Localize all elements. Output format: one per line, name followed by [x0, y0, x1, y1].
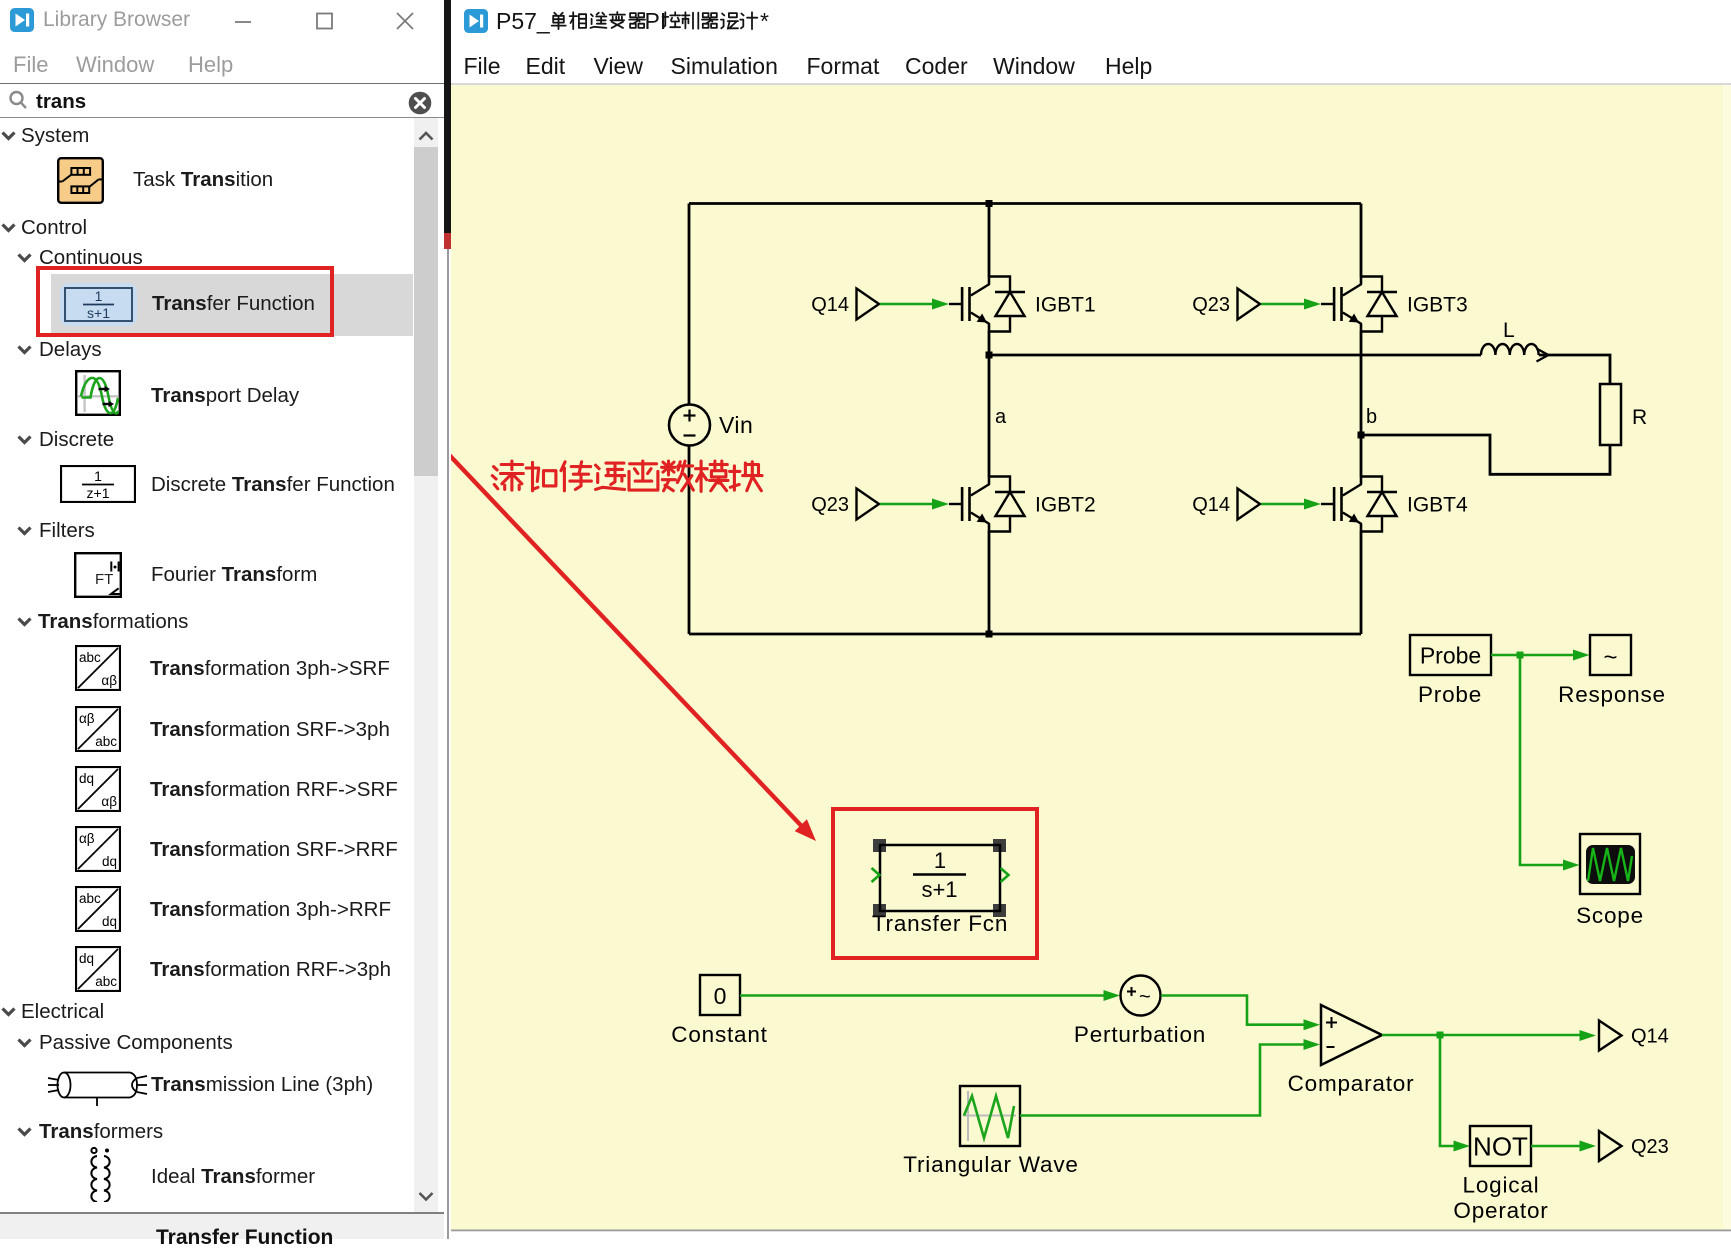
wire IGBT3 collector to top bus [1360, 204, 1363, 278]
wire Perturbation to Comparator plus input [1161, 996, 1304, 1025]
svg-text:IGBT3: IGBT3 [1407, 294, 1468, 317]
red annotation text 添加传递函数模块 [492, 461, 762, 491]
antiparallel diode of IGBT1 [989, 277, 1025, 332]
svg-text:Vin: Vin [719, 412, 753, 438]
wire IGBT1 collector to top bus [988, 204, 991, 278]
NOT logical operator [1470, 1126, 1531, 1166]
selection handles of Transfer Fcn [873, 839, 1006, 917]
wire left leg upper (Vin to top bus) [688, 204, 691, 405]
comparator [1321, 1005, 1382, 1065]
wire junction to Scope [1520, 655, 1563, 865]
inductor L [1481, 344, 1539, 355]
wire IGBT1 emitter to IGBT2 collector (node a leg) [988, 331, 991, 477]
svg-text:Transfer Fcn: Transfer Fcn [872, 911, 1008, 936]
svg-text:Probe: Probe [1420, 643, 1481, 669]
red annotation arrow [341, 341, 816, 841]
wire gate signal IGBT1 [880, 299, 949, 310]
transistor IGBT2 [949, 477, 990, 532]
gate port Q14 of IGBT1 [811, 289, 879, 320]
wire IGBT4 emitter to bottom bus [1360, 531, 1363, 634]
wire gate signal IGBT2 [880, 499, 949, 510]
svg-text:αβ: αβ [79, 831, 95, 846]
wire Constant to Perturbation [740, 994, 1104, 997]
transistor IGBT4 [1321, 477, 1362, 532]
perturbation source [1121, 976, 1161, 1016]
wire gate signal IGBT4 [1261, 499, 1321, 510]
svg-text:Q14: Q14 [811, 294, 849, 316]
svg-text:αβ: αβ [79, 711, 95, 726]
wire IGBT3 emitter to IGBT4 collector (node b leg) [1360, 331, 1363, 477]
antiparallel diode of IGBT2 [989, 477, 1025, 532]
probe block Probe [1410, 635, 1491, 675]
transistor IGBT3 [1321, 277, 1362, 332]
wire node a to inductor [989, 354, 1481, 357]
svg-text:Operator: Operator [1453, 1198, 1548, 1223]
current arrow after L [1537, 349, 1549, 362]
gate port Q14 of IGBT4 [1192, 489, 1260, 520]
svg-text:z+1: z+1 [87, 485, 110, 501]
gate port Q23 of IGBT3 [1192, 289, 1260, 320]
constant block 0 [700, 975, 740, 1015]
svg-text:Q23: Q23 [1192, 294, 1230, 316]
svg-text:1: 1 [934, 848, 946, 873]
svg-text:IGBT1: IGBT1 [1035, 294, 1096, 317]
svg-text:abc: abc [95, 974, 117, 989]
red highlight box around Transfer Fcn [833, 809, 1037, 958]
wire NOT to Q23 port [1531, 1145, 1580, 1148]
svg-text:P57_: P57_ [496, 8, 551, 34]
wire gate signal IGBT3 [1261, 299, 1321, 310]
svg-text:IGBT4: IGBT4 [1407, 494, 1468, 517]
svg-text:dq: dq [79, 951, 94, 966]
junction node b [1358, 432, 1365, 439]
triangular wave generator [960, 1086, 1020, 1146]
input pin chevron [872, 868, 880, 882]
response block (~) [1590, 635, 1631, 675]
output port Q14 [1599, 1021, 1669, 1051]
junction probe signal [1517, 652, 1524, 659]
transistor IGBT1 [949, 277, 990, 332]
svg-text:s+1: s+1 [921, 877, 957, 902]
svg-text:~: ~ [1139, 986, 1151, 1008]
svg-text:R: R [1632, 406, 1647, 429]
wire Triangular Wave to Comparator minus input [1020, 1045, 1304, 1116]
svg-text:~: ~ [1603, 644, 1617, 671]
svg-text:Q23: Q23 [811, 494, 849, 516]
svg-text:IGBT2: IGBT2 [1035, 494, 1096, 517]
wire Probe to Response [1491, 654, 1573, 657]
wire top DC bus [689, 202, 1361, 205]
svg-text:abc: abc [79, 891, 101, 906]
gate port Q23 of IGBT2 [811, 489, 879, 520]
svg-text:0: 0 [714, 983, 727, 1009]
svg-text:abc: abc [79, 650, 101, 665]
antiparallel diode of IGBT3 [1361, 277, 1397, 332]
svg-text:dq: dq [79, 771, 94, 786]
svg-text:b: b [1366, 406, 1377, 428]
wire junction to NOT gate [1440, 1035, 1454, 1146]
wire left leg lower (Vin to bottom bus) [688, 446, 691, 635]
junction node a [986, 352, 993, 359]
transfer function block U1 [880, 845, 1000, 911]
output port Q23 [1599, 1131, 1669, 1161]
antiparallel diode of IGBT4 [1361, 477, 1397, 532]
svg-text:*: * [760, 8, 769, 34]
junction bottom bus / IGBT2 leg [986, 631, 993, 638]
svg-text:Perturbation: Perturbation [1074, 1022, 1206, 1047]
svg-text:NOT: NOT [1473, 1132, 1528, 1162]
svg-text:PI: PI [645, 8, 667, 34]
svg-text:Q23: Q23 [1631, 1136, 1669, 1158]
svg-text:Logical: Logical [1463, 1173, 1540, 1198]
svg-text:αβ: αβ [101, 673, 117, 688]
svg-text:FT: FT [95, 571, 113, 588]
svg-text:Constant: Constant [671, 1022, 767, 1047]
svg-text:abc: abc [95, 734, 117, 749]
svg-text:a: a [995, 406, 1007, 428]
svg-text:Response: Response [1558, 682, 1666, 707]
svg-text:Comparator: Comparator [1288, 1071, 1415, 1096]
junction comparator output [1437, 1032, 1444, 1039]
wire Comparator output to Q14 port [1382, 1034, 1580, 1037]
svg-text:Q14: Q14 [1631, 1026, 1669, 1048]
wire R bottom return to node b [1361, 435, 1610, 474]
svg-text:αβ: αβ [101, 794, 117, 809]
svg-text:dq: dq [102, 914, 117, 929]
wire bottom DC bus [689, 633, 1361, 636]
svg-text:dq: dq [102, 854, 117, 869]
output pin chevron [1001, 868, 1009, 882]
svg-text:Probe: Probe [1418, 682, 1482, 707]
svg-text:L: L [1503, 319, 1515, 342]
wire IGBT2 emitter to bottom bus [988, 531, 991, 634]
svg-text:Q14: Q14 [1192, 494, 1230, 516]
voltage source Vin [669, 405, 710, 446]
resistor R [1600, 384, 1621, 445]
scope block [1580, 834, 1640, 894]
junction top bus / IGBT1 leg [986, 200, 993, 207]
svg-text:Scope: Scope [1576, 903, 1644, 928]
svg-text:1: 1 [94, 468, 102, 484]
wire L to R top corner [1539, 355, 1610, 384]
svg-text:Triangular Wave: Triangular Wave [903, 1152, 1078, 1177]
